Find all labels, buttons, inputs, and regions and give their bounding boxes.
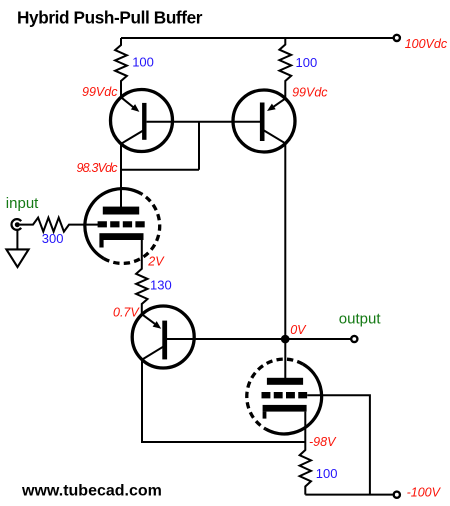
triode V1 bbox=[85, 189, 160, 264]
svg-text:100Vdc: 100Vdc bbox=[405, 37, 448, 51]
svg-text:-98V: -98V bbox=[309, 435, 337, 449]
svg-text:-100V: -100V bbox=[407, 486, 442, 500]
transistor Q1 bbox=[111, 90, 173, 152]
svg-text:98.3Vdc: 98.3Vdc bbox=[77, 161, 119, 175]
wire base link bbox=[147, 121, 260, 123]
wire base-collector loop bbox=[121, 122, 199, 170]
transistor Q3 bbox=[132, 306, 194, 368]
input jack bbox=[12, 219, 22, 230]
terminal 100Vdc bbox=[394, 35, 400, 41]
transistor Q2 bbox=[233, 90, 295, 152]
junction node bbox=[281, 335, 290, 344]
wire output bbox=[285, 338, 351, 340]
wire top rail bbox=[121, 37, 393, 39]
svg-text:100: 100 bbox=[316, 466, 338, 481]
wire Q3 base to output node bbox=[167, 338, 285, 340]
svg-text:300: 300 bbox=[42, 231, 64, 246]
svg-text:99Vdc: 99Vdc bbox=[82, 85, 118, 99]
svg-text:Hybrid Push-Pull Buffer: Hybrid Push-Pull Buffer bbox=[17, 7, 203, 27]
wire V2 cathode down bbox=[304, 412, 306, 442]
ground bbox=[16, 230, 18, 249]
svg-text:100: 100 bbox=[296, 55, 318, 70]
resistor R5 100 bbox=[300, 442, 311, 495]
wire Q3 collector down and across bbox=[142, 360, 305, 442]
svg-text:100: 100 bbox=[132, 55, 154, 70]
terminal output bbox=[351, 336, 357, 342]
svg-text:130: 130 bbox=[150, 277, 172, 292]
resistor R3 300 with input wire bbox=[20, 218, 99, 232]
svg-text:input: input bbox=[6, 195, 39, 212]
resistor R4 130 bbox=[136, 240, 147, 314]
svg-text:output: output bbox=[339, 310, 382, 327]
svg-text:0V: 0V bbox=[290, 323, 307, 337]
svg-text:www.tubecad.com: www.tubecad.com bbox=[21, 483, 162, 500]
wire Q2 collector down through output node to plate bbox=[284, 143, 286, 378]
wire V2 grid loop bbox=[307, 395, 370, 494]
triode V2 bbox=[247, 359, 322, 434]
resistor R1 100 bbox=[115, 38, 127, 97]
svg-text:99Vdc: 99Vdc bbox=[292, 85, 328, 99]
svg-text:0.7V: 0.7V bbox=[113, 306, 140, 320]
terminal -100V bbox=[394, 492, 400, 498]
resistor R2 100 bbox=[279, 38, 291, 99]
svg-text:2V: 2V bbox=[147, 255, 165, 269]
wire Q1 collector down to plate bbox=[120, 144, 122, 208]
wire bottom rail bbox=[305, 494, 393, 496]
